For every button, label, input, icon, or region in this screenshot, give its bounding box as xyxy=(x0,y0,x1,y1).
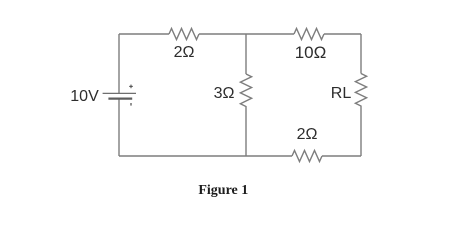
svg-text:2Ω: 2Ω xyxy=(297,126,318,143)
wire bottom-right segment xyxy=(322,155,361,157)
battery minus sign xyxy=(130,103,132,106)
node A (top junction of middle branch) xyxy=(246,33,294,35)
wire middle vertical upper xyxy=(245,34,247,74)
svg-text:RL: RL xyxy=(331,85,352,102)
wire middle vertical lower xyxy=(245,109,247,157)
battery V1 negative plate xyxy=(108,97,132,99)
resistor RL (load, right branch) xyxy=(355,74,366,109)
svg-text:2Ω: 2Ω xyxy=(174,44,195,61)
battery plus sign xyxy=(129,85,133,89)
svg-text:3Ω: 3Ω xyxy=(214,85,235,102)
wire left vertical upper xyxy=(118,34,120,93)
wire top-left segment xyxy=(119,33,169,35)
resistor R4 (3 ohm, middle branch) xyxy=(240,74,251,109)
wire bottom-middle segment xyxy=(246,155,292,157)
resistor R2 (10 ohm, top-right) xyxy=(294,29,324,40)
resistor R3 (2 ohm, bottom) xyxy=(292,151,322,162)
svg-text:Figure 1: Figure 1 xyxy=(198,183,248,198)
wire top-middle segment xyxy=(199,33,246,35)
svg-text:10V: 10V xyxy=(70,88,99,105)
svg-text:10Ω: 10Ω xyxy=(295,43,327,62)
wire right vertical lower xyxy=(360,109,362,157)
battery V1 positive plate xyxy=(103,92,136,94)
wire right vertical upper xyxy=(360,34,362,74)
resistor R1 (2 ohm, top-left) xyxy=(169,29,199,40)
wire top-right segment xyxy=(324,33,361,35)
node B (bottom junction of middle branch) xyxy=(119,155,246,157)
wire left vertical lower xyxy=(118,99,120,156)
